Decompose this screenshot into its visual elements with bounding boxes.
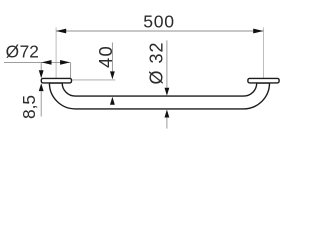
arrow Ø72 left — [41, 60, 51, 65]
extension line Ø72/8,5 left edge — [40, 62, 42, 70]
svg-text:500: 500 — [143, 12, 174, 32]
dim Ø32 lower arrow — [165, 110, 170, 118]
extension line Ø72 right edge — [70, 62, 72, 78]
flange right — [248, 78, 279, 83]
svg-text:72: 72 — [20, 42, 39, 62]
dim 8,5 lower arrow — [39, 83, 44, 91]
dimension line Ø72 — [4, 61, 70, 63]
dim Ø32 upper arrow — [165, 88, 170, 96]
svg-text:Ø: Ø — [6, 42, 19, 62]
svg-text:40: 40 — [95, 45, 116, 68]
dim 40 upper arrow — [110, 71, 115, 79]
arrow Ø72 right — [60, 60, 70, 65]
dim 40 guide line — [111, 43, 113, 73]
extension line right (500 dim) — [262, 28, 264, 79]
svg-text:8,5: 8,5 — [19, 95, 39, 119]
svg-text:Ø 32: Ø 32 — [146, 41, 166, 84]
tube outline — [49, 83, 269, 109]
dim Ø32 guide line lower — [166, 117, 168, 128]
dim Ø32 guide line upper — [166, 40, 168, 87]
dim 40 lower arrow — [110, 97, 115, 105]
flange left — [41, 78, 71, 83]
wall plane extension line — [72, 79, 115, 81]
dimension line 500 — [56, 30, 263, 32]
extension line left (500 dim) — [55, 28, 57, 79]
arrow 500 left — [56, 29, 66, 34]
arrow 500 right — [253, 29, 263, 34]
dim 8,5 upper arrow — [39, 70, 44, 78]
dim 8,5 leader line — [40, 91, 42, 117]
